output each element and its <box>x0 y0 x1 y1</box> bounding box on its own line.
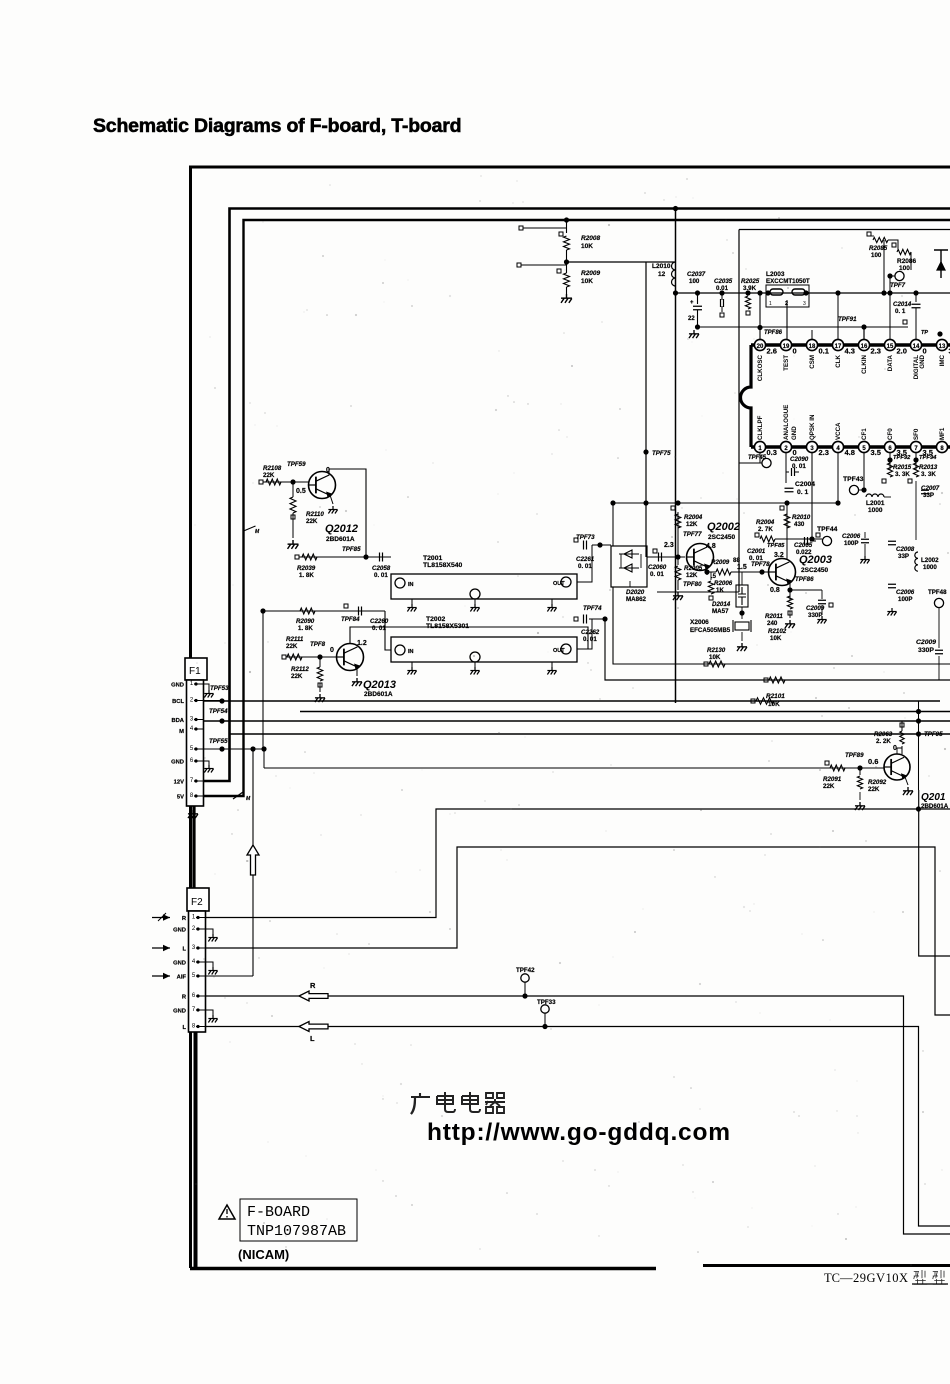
svg-text:MF1: MF1 <box>939 427 946 440</box>
svg-text:22K: 22K <box>291 673 303 680</box>
svg-text:TPF95: TPF95 <box>924 731 943 738</box>
svg-text:2BD601A: 2BD601A <box>326 536 355 543</box>
svg-text:L: L <box>310 1034 315 1043</box>
svg-text:CLKOSC: CLKOSC <box>757 354 764 381</box>
svg-text:29GV10X: 29GV10X <box>853 1271 909 1285</box>
svg-text:R2015: R2015 <box>893 464 912 471</box>
svg-text:D2020: D2020 <box>626 589 645 596</box>
svg-text:EFCA505MB5: EFCA505MB5 <box>690 627 731 634</box>
svg-text:R2085: R2085 <box>869 245 888 252</box>
svg-text:R: R <box>310 981 316 990</box>
svg-text:TPF86: TPF86 <box>795 576 814 583</box>
svg-text:TPF85: TPF85 <box>767 543 785 549</box>
svg-text:—: — <box>839 1271 853 1285</box>
svg-text:1.2: 1.2 <box>357 640 367 647</box>
svg-text:19: 19 <box>783 344 790 350</box>
svg-text:1.5: 1.5 <box>737 564 747 571</box>
svg-text:R2092: R2092 <box>868 779 887 786</box>
svg-text:2. 2K: 2. 2K <box>876 738 891 745</box>
svg-text:IN: IN <box>408 582 414 588</box>
svg-text:2.3: 2.3 <box>871 347 881 356</box>
svg-text:TL8158X5301: TL8158X5301 <box>426 623 469 630</box>
svg-text:TPF43: TPF43 <box>843 476 864 483</box>
svg-text:3. 3K: 3. 3K <box>921 471 936 478</box>
svg-text:0. 01: 0. 01 <box>374 572 388 579</box>
svg-text:TPF73: TPF73 <box>576 534 595 541</box>
svg-text:C2262: C2262 <box>581 629 600 636</box>
svg-text:CLKIN: CLKIN <box>861 354 868 373</box>
svg-text:Schematic Diagrams of F-board,: Schematic Diagrams of F-board, T-board <box>93 115 461 137</box>
svg-text:88: 88 <box>733 557 740 564</box>
svg-text:2. 7K: 2. 7K <box>758 526 773 533</box>
svg-text:10K: 10K <box>768 701 780 708</box>
svg-text:MA862: MA862 <box>626 596 647 603</box>
svg-text:CLK: CLK <box>835 354 842 367</box>
svg-text:TPF44: TPF44 <box>817 526 838 533</box>
svg-text:R2009: R2009 <box>581 270 601 277</box>
svg-text:R2112: R2112 <box>291 666 309 673</box>
svg-text:R2090: R2090 <box>296 618 315 625</box>
svg-text:QPSK IN: QPSK IN <box>809 414 816 440</box>
svg-text:TPF48: TPF48 <box>928 589 947 596</box>
svg-text:20: 20 <box>757 344 764 350</box>
svg-text:OUT: OUT <box>553 581 565 587</box>
svg-text:TPF54: TPF54 <box>209 708 228 715</box>
svg-text:TPF45: TPF45 <box>748 455 767 461</box>
svg-text:C2001: C2001 <box>747 548 766 555</box>
svg-text:R2010: R2010 <box>792 514 811 521</box>
svg-text:R2111: R2111 <box>286 636 304 643</box>
svg-text:13: 13 <box>939 344 946 350</box>
svg-text:100P: 100P <box>898 596 912 603</box>
svg-text:R2108: R2108 <box>263 465 282 472</box>
svg-text:22K: 22K <box>868 786 880 793</box>
svg-text:2SC2450: 2SC2450 <box>801 567 828 574</box>
svg-text:BCL: BCL <box>172 699 184 705</box>
svg-text:CF1: CF1 <box>861 428 868 440</box>
svg-text:1000: 1000 <box>923 564 937 571</box>
svg-text:M: M <box>179 729 184 735</box>
svg-text:0.5: 0.5 <box>296 488 306 495</box>
svg-text:CSM: CSM <box>809 355 816 369</box>
svg-text:4.8: 4.8 <box>706 543 716 550</box>
svg-text:SF0: SF0 <box>913 428 920 440</box>
svg-text:0.3: 0.3 <box>767 448 777 457</box>
svg-text:TP: TP <box>921 330 928 336</box>
svg-text:22K: 22K <box>286 643 298 650</box>
svg-text:TPF55: TPF55 <box>209 738 228 745</box>
svg-text:D2014: D2014 <box>712 601 731 608</box>
svg-text:C2014: C2014 <box>893 301 912 308</box>
svg-text:GND: GND <box>791 426 798 440</box>
svg-text:0. 01: 0. 01 <box>650 571 664 578</box>
svg-text:TPF77: TPF77 <box>683 531 702 538</box>
svg-text:1. 8K: 1. 8K <box>299 572 314 579</box>
svg-text:TPF84: TPF84 <box>341 616 360 623</box>
svg-text:R2091: R2091 <box>823 776 842 783</box>
svg-text:X2006: X2006 <box>690 619 709 626</box>
svg-text:1K: 1K <box>716 587 724 594</box>
svg-text:T2002: T2002 <box>426 616 445 623</box>
svg-text:C2260: C2260 <box>370 618 389 625</box>
svg-text:330P: 330P <box>918 647 934 654</box>
svg-text:4.3: 4.3 <box>845 347 855 356</box>
svg-text:2.0: 2.0 <box>897 347 907 356</box>
svg-text:3.2: 3.2 <box>774 552 784 559</box>
svg-text:TPF89: TPF89 <box>845 752 864 759</box>
svg-text:R2063: R2063 <box>874 731 893 738</box>
svg-text:17: 17 <box>835 344 842 350</box>
svg-text:22K: 22K <box>263 472 275 479</box>
svg-text:L2002: L2002 <box>921 557 939 564</box>
svg-text:100: 100 <box>871 252 882 259</box>
svg-text:L: L <box>182 947 186 953</box>
svg-text:L2003: L2003 <box>766 271 785 278</box>
svg-text:0: 0 <box>923 347 927 356</box>
svg-text:R2009: R2009 <box>711 559 730 566</box>
svg-text:C2006: C2006 <box>842 533 861 540</box>
svg-text:TPF78: TPF78 <box>751 561 770 568</box>
svg-text:10K: 10K <box>770 635 782 642</box>
svg-text:R2039: R2039 <box>297 565 316 572</box>
svg-text:10K: 10K <box>581 278 593 285</box>
svg-text:TPF33: TPF33 <box>537 999 556 1006</box>
svg-text:2.6: 2.6 <box>767 347 777 356</box>
svg-text:AIF: AIF <box>177 975 187 981</box>
svg-text:GND: GND <box>171 760 184 766</box>
svg-text:3. 3K: 3. 3K <box>895 471 910 478</box>
svg-text:33P: 33P <box>898 553 909 560</box>
svg-text:C2060: C2060 <box>648 564 667 571</box>
svg-text:R2101: R2101 <box>766 693 785 700</box>
svg-text:0.1: 0.1 <box>819 347 829 356</box>
svg-text:0. 1: 0. 1 <box>797 489 809 496</box>
svg-text:F1: F1 <box>189 666 201 677</box>
svg-text:CLKLPF: CLKLPF <box>757 415 764 440</box>
svg-text:TPF53: TPF53 <box>210 685 229 692</box>
svg-text:10K: 10K <box>709 654 721 661</box>
svg-text:0: 0 <box>893 745 897 752</box>
svg-text:5V: 5V <box>177 795 184 801</box>
svg-text:R2130: R2130 <box>707 647 726 654</box>
svg-text:TPF92: TPF92 <box>893 455 911 461</box>
svg-text:+: + <box>690 300 694 306</box>
svg-text:2SC2450: 2SC2450 <box>708 534 735 541</box>
svg-text:430: 430 <box>794 521 805 528</box>
svg-text:TNP107987AB: TNP107987AB <box>247 1223 346 1240</box>
svg-text:0. 01: 0. 01 <box>583 636 597 643</box>
svg-text:MA57: MA57 <box>712 608 729 615</box>
svg-text:22K: 22K <box>823 783 835 790</box>
svg-text:F2: F2 <box>191 897 203 908</box>
svg-text:EXCCMT1050T: EXCCMT1050T <box>766 278 810 285</box>
svg-text:TPF74: TPF74 <box>583 605 602 612</box>
svg-text:TPF75: TPF75 <box>652 450 671 457</box>
svg-text:3: 3 <box>803 301 806 307</box>
svg-text:12: 12 <box>658 271 666 278</box>
svg-text:C2008: C2008 <box>896 546 915 553</box>
svg-text:2BD601A: 2BD601A <box>921 803 949 810</box>
svg-text:18: 18 <box>809 344 816 350</box>
svg-text:F-BOARD: F-BOARD <box>247 1204 310 1221</box>
svg-text:TPF91: TPF91 <box>838 316 857 323</box>
svg-text:L: L <box>182 1025 186 1031</box>
svg-text:VCCA: VCCA <box>835 422 842 440</box>
svg-text:GND: GND <box>171 683 184 689</box>
svg-text:33P: 33P <box>923 492 934 499</box>
svg-text:TPF59: TPF59 <box>287 461 306 468</box>
svg-text:0. 1: 0. 1 <box>895 308 906 315</box>
svg-text:OUT: OUT <box>553 648 565 654</box>
svg-text:TPF86: TPF86 <box>764 330 783 336</box>
svg-text:TPF8: TPF8 <box>310 641 326 648</box>
svg-text:DATA: DATA <box>887 354 894 371</box>
svg-text:(NICAM): (NICAM) <box>238 1247 289 1262</box>
svg-text:IN: IN <box>408 649 414 655</box>
svg-text:R2006: R2006 <box>714 580 733 587</box>
svg-text:Q201: Q201 <box>921 792 946 803</box>
svg-text:L2001: L2001 <box>866 500 885 507</box>
svg-text:22: 22 <box>688 316 695 322</box>
svg-text:C2035: C2035 <box>714 278 733 285</box>
svg-text:3.5: 3.5 <box>871 448 881 457</box>
svg-text:2.3: 2.3 <box>664 542 674 549</box>
svg-text:TPF85: TPF85 <box>342 546 361 553</box>
svg-text:0. 01: 0. 01 <box>578 563 592 570</box>
svg-text:GND: GND <box>173 1009 186 1015</box>
svg-text:330P: 330P <box>808 612 822 619</box>
svg-text:R2110: R2110 <box>306 511 324 518</box>
svg-text:BDA: BDA <box>171 718 184 724</box>
svg-text:1: 1 <box>769 301 772 307</box>
svg-text:0.6: 0.6 <box>868 757 878 766</box>
svg-text:15: 15 <box>887 344 894 350</box>
svg-text:2.3: 2.3 <box>819 448 829 457</box>
svg-text:L2010: L2010 <box>652 263 671 270</box>
svg-text:12K: 12K <box>686 572 698 579</box>
svg-text:R2008: R2008 <box>581 235 601 242</box>
svg-text:TPF42: TPF42 <box>516 967 535 974</box>
svg-text:R2005: R2005 <box>684 565 703 572</box>
svg-text:100P: 100P <box>844 540 858 547</box>
svg-text:TC: TC <box>824 1271 840 1285</box>
svg-text:TPF94: TPF94 <box>919 455 937 461</box>
svg-text:3.9K: 3.9K <box>743 285 757 292</box>
svg-text:C2005: C2005 <box>794 542 813 549</box>
svg-text:TPF80: TPF80 <box>683 581 702 588</box>
svg-text:GND: GND <box>919 354 926 368</box>
svg-text:C2037: C2037 <box>687 271 706 278</box>
svg-text:http://www.go-gddq.com: http://www.go-gddq.com <box>427 1119 731 1146</box>
svg-text:CF0: CF0 <box>887 428 894 440</box>
svg-text:R2013: R2013 <box>919 464 938 471</box>
svg-text:C2007: C2007 <box>921 485 940 492</box>
svg-text:R2102: R2102 <box>768 628 787 635</box>
svg-text:0.022: 0.022 <box>796 549 812 556</box>
svg-text:12V: 12V <box>174 780 184 786</box>
svg-text:0: 0 <box>330 647 334 654</box>
svg-text:TPF7: TPF7 <box>890 282 906 289</box>
svg-text:C2090: C2090 <box>790 456 809 463</box>
svg-text:2BD601A: 2BD601A <box>364 691 393 698</box>
svg-text:4.8: 4.8 <box>845 448 855 457</box>
svg-text:TEST: TEST <box>783 355 790 371</box>
svg-text:GND: GND <box>173 928 186 934</box>
svg-text:ANALOGUE: ANALOGUE <box>783 405 790 440</box>
svg-text:IMC: IMC <box>939 354 946 366</box>
svg-text:14: 14 <box>913 344 920 350</box>
svg-text:1000: 1000 <box>868 507 883 514</box>
svg-text:22K: 22K <box>306 518 318 525</box>
svg-text:C2261: C2261 <box>576 556 595 563</box>
svg-text:0: 0 <box>793 347 797 356</box>
svg-text:12K: 12K <box>686 521 698 528</box>
svg-text:100: 100 <box>689 278 700 285</box>
svg-text:R2004: R2004 <box>684 514 703 521</box>
svg-text:1. 8K: 1. 8K <box>298 625 313 632</box>
svg-text:GND: GND <box>173 961 186 967</box>
svg-text:R2004: R2004 <box>756 519 775 526</box>
svg-text:Q2002: Q2002 <box>707 521 740 533</box>
svg-text:T2001: T2001 <box>423 555 442 562</box>
svg-text:240: 240 <box>767 620 778 627</box>
svg-text:TL8158X540: TL8158X540 <box>423 562 463 569</box>
svg-text:R2011: R2011 <box>765 613 783 620</box>
svg-text:0. 01: 0. 01 <box>372 625 386 632</box>
svg-text:R2086: R2086 <box>897 258 917 265</box>
svg-text:16: 16 <box>861 344 868 350</box>
svg-text:10K: 10K <box>581 243 593 250</box>
svg-text:0.8: 0.8 <box>770 587 780 594</box>
svg-text:C2058: C2058 <box>372 565 391 572</box>
svg-text:C2009: C2009 <box>916 639 936 646</box>
svg-text:R2025: R2025 <box>741 278 760 285</box>
svg-text:Q2012: Q2012 <box>325 523 358 535</box>
svg-text:C2006: C2006 <box>896 589 915 596</box>
